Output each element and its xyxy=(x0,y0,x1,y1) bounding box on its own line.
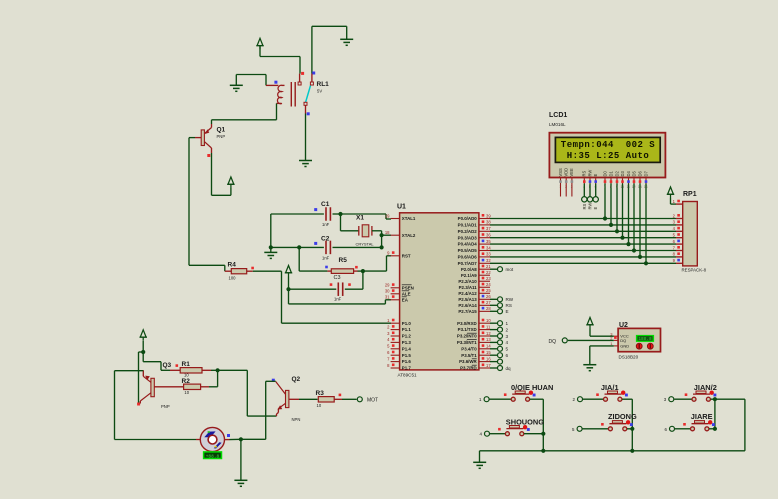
svg-text:E: E xyxy=(593,207,598,210)
svg-text:JIARE: JIARE xyxy=(691,412,713,421)
svg-text:P3.7/RD: P3.7/RD xyxy=(460,366,477,371)
svg-text:RL1: RL1 xyxy=(317,81,330,88)
svg-text:38: 38 xyxy=(486,220,491,225)
svg-text:17: 17 xyxy=(486,363,491,368)
svg-text:P3.1/TXD: P3.1/TXD xyxy=(458,327,477,332)
svg-text:13: 13 xyxy=(638,185,642,189)
svg-text:29: 29 xyxy=(385,283,390,288)
svg-text:+88.8: +88.8 xyxy=(206,453,220,459)
svg-text:P1.7: P1.7 xyxy=(402,366,412,371)
svg-text:30: 30 xyxy=(385,289,390,294)
svg-text:5V: 5V xyxy=(317,89,322,94)
svg-text:21: 21 xyxy=(486,264,491,269)
svg-text:R1: R1 xyxy=(182,361,191,368)
svg-text:P2.3/A11: P2.3/A11 xyxy=(459,285,478,290)
svg-text:188.8: 188.8 xyxy=(638,337,652,342)
svg-text:RESPACK-8: RESPACK-8 xyxy=(682,268,707,273)
svg-text:D7: D7 xyxy=(643,171,648,177)
svg-text:5: 5 xyxy=(506,347,509,352)
svg-text:P0.5/AD5: P0.5/AD5 xyxy=(458,248,478,253)
svg-text:10: 10 xyxy=(184,372,189,377)
svg-text:RW: RW xyxy=(588,203,593,210)
svg-text:RW: RW xyxy=(587,170,592,177)
svg-text:7: 7 xyxy=(604,185,606,189)
svg-text:VEE: VEE xyxy=(569,168,574,176)
svg-text:PSEN: PSEN xyxy=(402,285,414,290)
svg-text:15: 15 xyxy=(486,350,491,355)
svg-text:19: 19 xyxy=(385,213,390,218)
svg-text:XTAL2: XTAL2 xyxy=(402,233,416,238)
svg-text:P3.5/T1: P3.5/T1 xyxy=(461,353,477,358)
svg-text:RS: RS xyxy=(506,303,512,308)
svg-text:Q2: Q2 xyxy=(292,376,301,383)
svg-text:P1.4: P1.4 xyxy=(402,346,412,351)
svg-text:10: 10 xyxy=(184,390,189,395)
svg-text:P1.5: P1.5 xyxy=(402,353,412,358)
svg-text:11: 11 xyxy=(627,185,631,189)
svg-text:P1.6: P1.6 xyxy=(402,359,412,364)
svg-text:P2.4/A12: P2.4/A12 xyxy=(458,291,477,296)
svg-text:9: 9 xyxy=(616,185,618,189)
svg-text:mot: mot xyxy=(506,267,514,272)
svg-text:VDD: VDD xyxy=(564,168,569,177)
svg-text:16: 16 xyxy=(486,356,491,361)
svg-text:Tempn:044 002 S: Tempn:044 002 S xyxy=(561,140,656,150)
svg-text:P0.6/AD6: P0.6/AD6 xyxy=(458,255,478,260)
svg-text:R4: R4 xyxy=(228,262,237,269)
svg-text:PNP: PNP xyxy=(217,134,226,139)
svg-text:37: 37 xyxy=(486,226,491,231)
svg-text:Q1: Q1 xyxy=(217,127,226,134)
svg-text:P3.6/WR: P3.6/WR xyxy=(459,359,477,364)
svg-text:R5: R5 xyxy=(339,257,348,264)
svg-text:10: 10 xyxy=(621,185,625,189)
svg-text:32: 32 xyxy=(486,258,491,263)
svg-text:P2.7/A15: P2.7/A15 xyxy=(458,309,477,314)
svg-text:GND: GND xyxy=(620,343,629,348)
svg-text:36: 36 xyxy=(486,233,491,238)
svg-text:XTAL1: XTAL1 xyxy=(402,216,416,221)
svg-text:X1: X1 xyxy=(356,215,364,222)
svg-text:P0.7/AD7: P0.7/AD7 xyxy=(458,261,478,266)
svg-text:P3.2/INT0: P3.2/INT0 xyxy=(457,334,477,339)
svg-text:22: 22 xyxy=(486,270,491,275)
svg-text:39: 39 xyxy=(486,213,491,218)
svg-text:RST: RST xyxy=(402,253,411,258)
svg-text:1nF: 1nF xyxy=(322,222,330,227)
svg-text:DQ: DQ xyxy=(549,339,557,345)
svg-text:10: 10 xyxy=(317,403,322,408)
svg-text:1nF: 1nF xyxy=(334,297,342,302)
svg-text:1nF: 1nF xyxy=(322,256,330,261)
svg-text:C3: C3 xyxy=(334,275,341,281)
svg-text:P0.4/AD4: P0.4/AD4 xyxy=(458,242,478,247)
svg-text:P2.1/A9: P2.1/A9 xyxy=(461,273,477,278)
svg-text:P3.3/INT1: P3.3/INT1 xyxy=(457,340,477,345)
svg-text:C1: C1 xyxy=(321,201,330,208)
svg-text:18: 18 xyxy=(385,230,390,235)
svg-text:P0.1/AD1: P0.1/AD1 xyxy=(458,223,478,228)
svg-text:P0.0/AD0: P0.0/AD0 xyxy=(458,216,478,221)
svg-text:26: 26 xyxy=(486,294,491,299)
svg-text:AT89C51: AT89C51 xyxy=(398,373,418,378)
svg-text:LCD1: LCD1 xyxy=(549,112,567,119)
svg-text:31: 31 xyxy=(385,295,390,300)
svg-text:100: 100 xyxy=(229,276,237,281)
svg-text:28: 28 xyxy=(486,306,491,311)
svg-text:25: 25 xyxy=(486,288,491,293)
svg-text:P0.3/AD3: P0.3/AD3 xyxy=(458,235,478,240)
svg-text:H:35 L:25 Auto: H:35 L:25 Auto xyxy=(567,151,650,161)
svg-text:6: 6 xyxy=(506,353,509,358)
svg-text:P0.2/AD2: P0.2/AD2 xyxy=(458,229,478,234)
svg-text:E: E xyxy=(593,174,598,177)
svg-text:RW: RW xyxy=(506,297,514,302)
svg-text:CRYSTAL: CRYSTAL xyxy=(356,242,375,247)
svg-text:RS: RS xyxy=(582,171,587,177)
svg-text:P1.2: P1.2 xyxy=(402,334,412,339)
svg-text:P2.5/A13: P2.5/A13 xyxy=(458,297,477,302)
svg-text:14: 14 xyxy=(486,344,491,349)
svg-text:D1: D1 xyxy=(608,171,613,177)
svg-text:E: E xyxy=(506,309,509,314)
svg-text:ZIDONG: ZIDONG xyxy=(608,412,637,421)
svg-text:RP1: RP1 xyxy=(683,191,697,198)
svg-text:D2: D2 xyxy=(614,171,619,177)
svg-text:10: 10 xyxy=(486,318,491,323)
svg-text:DQ: DQ xyxy=(620,338,626,343)
svg-text:MOT: MOT xyxy=(367,398,378,404)
svg-text:13: 13 xyxy=(486,337,491,342)
svg-text:14: 14 xyxy=(644,185,648,189)
svg-text:U1: U1 xyxy=(397,204,406,211)
svg-text:D3: D3 xyxy=(620,171,625,177)
svg-text:D0: D0 xyxy=(602,171,607,177)
svg-text:12: 12 xyxy=(486,331,491,336)
svg-text:RS: RS xyxy=(582,204,587,210)
svg-text:P2.0/A8: P2.0/A8 xyxy=(461,267,477,272)
svg-text:ALE: ALE xyxy=(402,291,411,296)
svg-text:3: 3 xyxy=(506,334,509,339)
svg-text:P2.2/A10: P2.2/A10 xyxy=(458,279,477,284)
svg-text:35: 35 xyxy=(486,239,491,244)
svg-text:P1.1: P1.1 xyxy=(402,327,412,332)
svg-text:D6: D6 xyxy=(637,171,642,177)
svg-text:VSS: VSS xyxy=(558,168,563,176)
svg-text:P1.0: P1.0 xyxy=(402,321,412,326)
svg-text:D5: D5 xyxy=(631,171,636,177)
svg-text:PNP: PNP xyxy=(161,404,170,409)
svg-text:P2.6/A14: P2.6/A14 xyxy=(458,303,477,308)
svg-text:NPN: NPN xyxy=(292,417,301,422)
svg-text:23: 23 xyxy=(486,276,491,281)
svg-text:EA: EA xyxy=(402,297,409,302)
svg-text:P3.0/RXD: P3.0/RXD xyxy=(457,321,477,326)
svg-text:34: 34 xyxy=(486,245,491,250)
svg-text:DS18B20: DS18B20 xyxy=(619,355,639,360)
svg-text:11: 11 xyxy=(486,324,491,329)
svg-text:4: 4 xyxy=(506,340,509,345)
svg-text:12: 12 xyxy=(632,185,636,189)
svg-text:27: 27 xyxy=(486,300,491,305)
svg-text:LM016L: LM016L xyxy=(549,122,566,127)
svg-text:1: 1 xyxy=(506,321,509,326)
svg-text:Q3: Q3 xyxy=(163,362,172,369)
svg-text:P3.4/T0: P3.4/T0 xyxy=(461,346,477,351)
svg-text:R3: R3 xyxy=(316,390,325,397)
svg-text:8: 8 xyxy=(610,185,612,189)
svg-text:P1.3: P1.3 xyxy=(402,340,412,345)
svg-text:dq: dq xyxy=(506,366,512,371)
svg-text:33: 33 xyxy=(486,252,491,257)
svg-text:24: 24 xyxy=(486,282,491,287)
svg-text:2: 2 xyxy=(506,327,509,332)
svg-text:D4: D4 xyxy=(626,171,631,177)
